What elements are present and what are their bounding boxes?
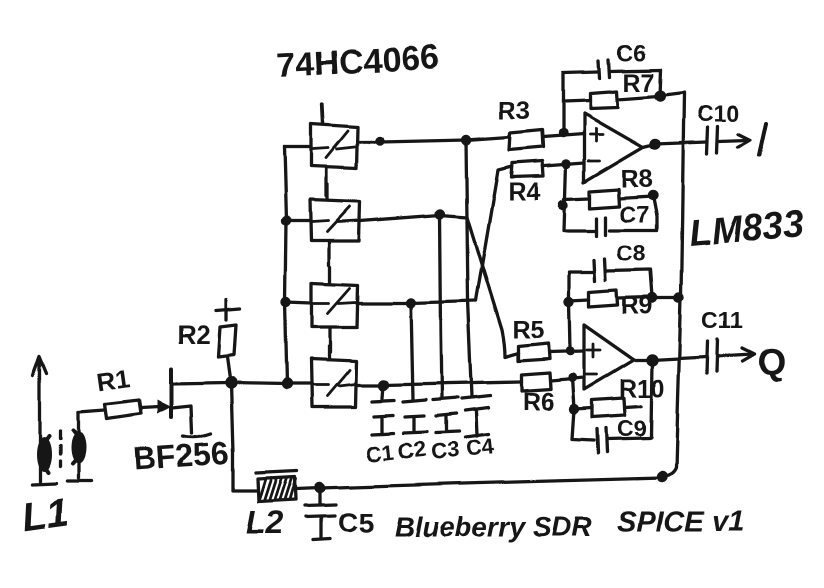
svg-text:R8: R8 [621, 165, 653, 193]
svg-text:C4: C4 [465, 434, 496, 462]
svg-text:R6: R6 [522, 388, 554, 416]
svg-text:BF256: BF256 [132, 434, 230, 477]
svg-text:R7: R7 [623, 69, 655, 97]
svg-text:R10: R10 [619, 375, 665, 403]
svg-text:R3: R3 [498, 97, 530, 125]
svg-text:SPICE v1: SPICE v1 [617, 506, 744, 538]
svg-text:C3: C3 [430, 437, 461, 465]
svg-text:C6: C6 [617, 40, 646, 66]
svg-text:C10: C10 [697, 100, 739, 126]
svg-text:R1: R1 [95, 363, 132, 397]
svg-text:C2: C2 [397, 436, 428, 464]
svg-text:C9: C9 [617, 415, 646, 441]
svg-text:R5: R5 [512, 316, 544, 344]
svg-text:C8: C8 [617, 240, 647, 266]
svg-text:R9: R9 [621, 292, 653, 320]
svg-text:C11: C11 [702, 307, 743, 333]
svg-text:C5: C5 [338, 507, 374, 538]
svg-text:L2: L2 [246, 505, 284, 541]
svg-text:Blueberry SDR: Blueberry SDR [394, 511, 592, 542]
svg-text:C1: C1 [365, 439, 396, 467]
svg-text:R4: R4 [508, 178, 540, 206]
svg-text:L1: L1 [19, 490, 71, 540]
svg-text:Q: Q [757, 341, 786, 382]
svg-text:R2: R2 [177, 320, 210, 350]
svg-text:C7: C7 [620, 201, 649, 227]
